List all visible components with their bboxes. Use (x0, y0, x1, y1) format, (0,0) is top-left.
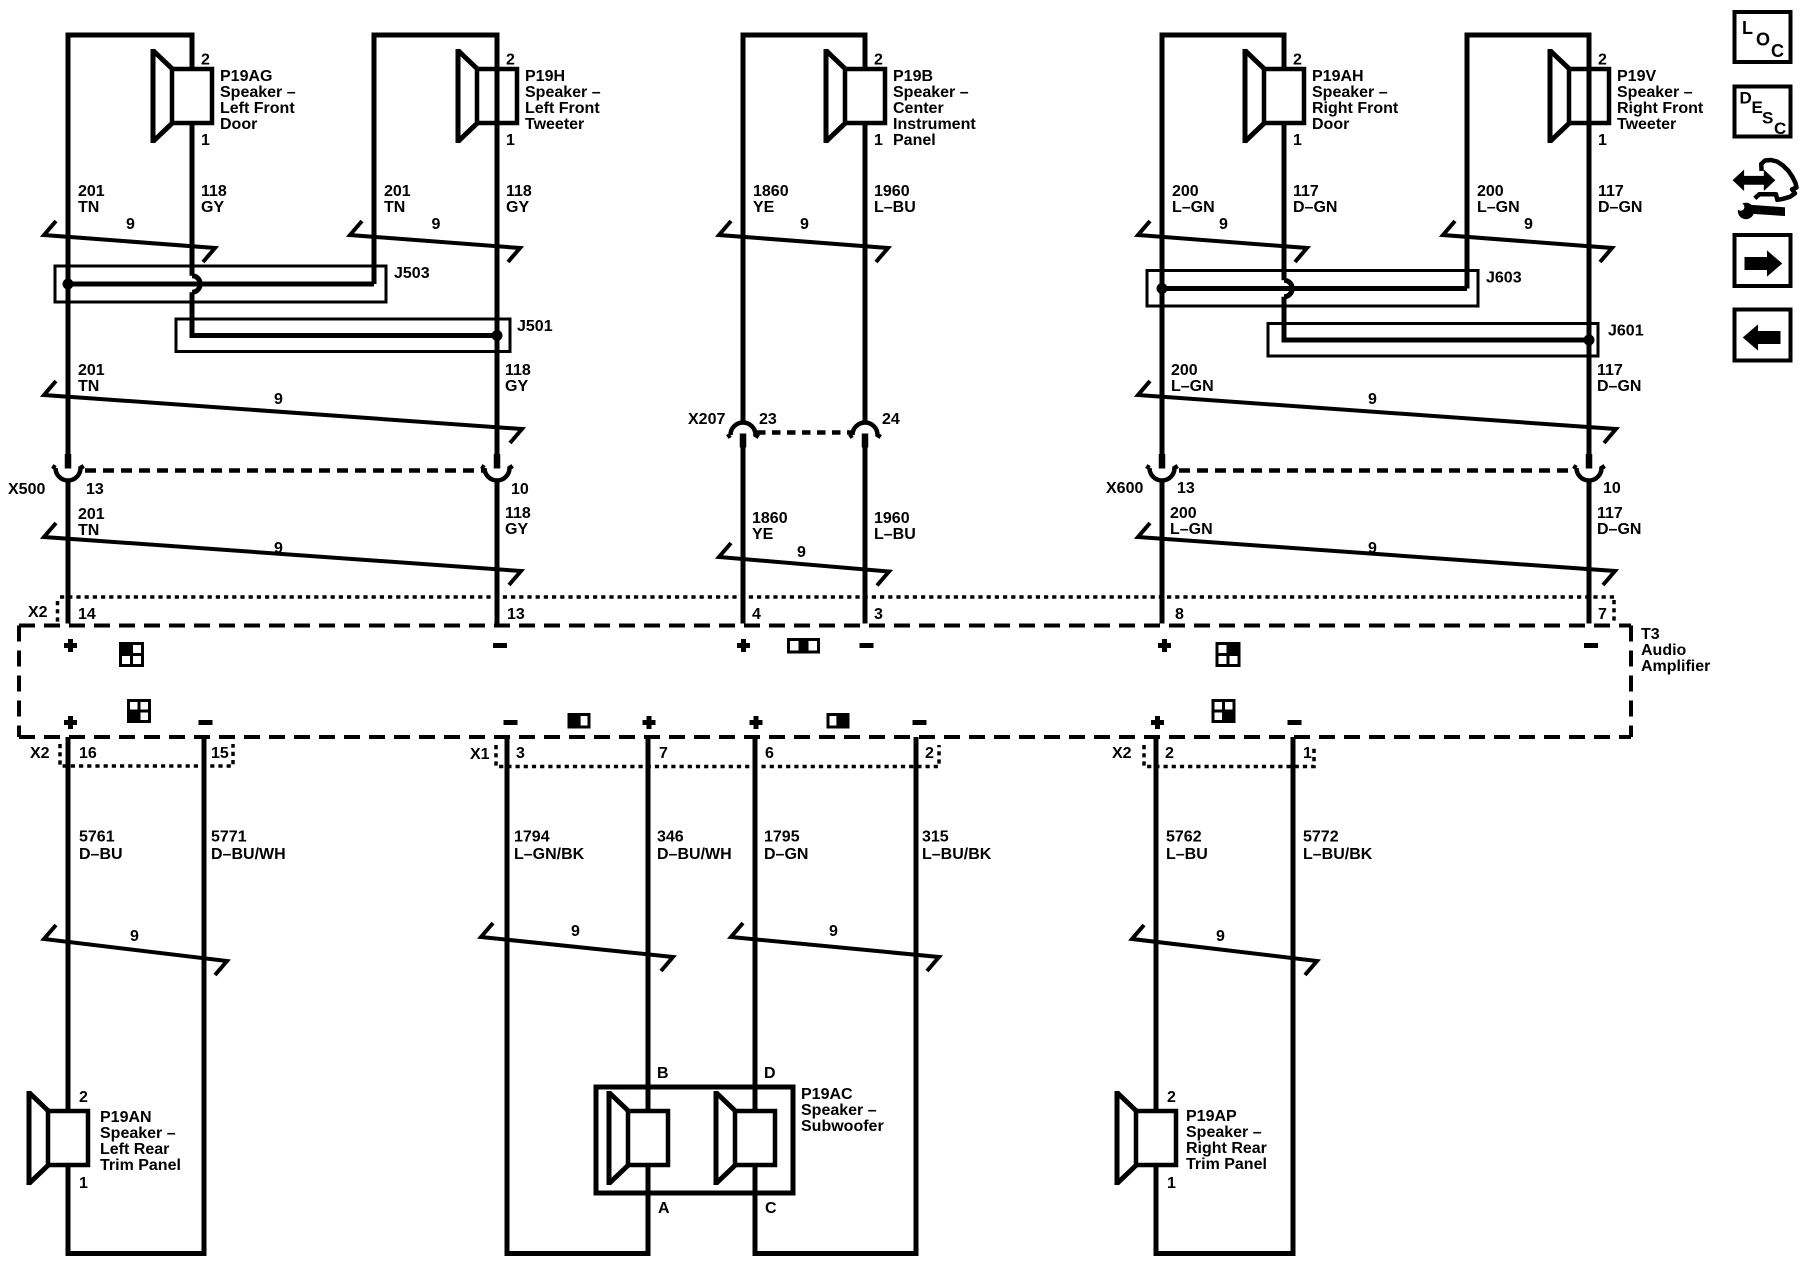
subwoofer box P19AC (596, 1087, 793, 1193)
svg-text:2: 2 (79, 1089, 88, 1106)
svg-text:O: O (1756, 30, 1770, 50)
amp plus pin4 (737, 639, 750, 652)
splice J503 (55, 266, 386, 302)
svg-text:X2: X2 (1112, 745, 1132, 762)
junction dot J503 on 201 TN (63, 279, 74, 290)
speaker P19AG symbol wire (190, 33, 195, 71)
icon subwoofer left position (569, 715, 589, 728)
svg-text:9: 9 (126, 216, 135, 233)
svg-text:118GY: 118GY (505, 505, 531, 538)
wire below speaker P19AH (1282, 122, 1287, 160)
svg-text:7: 7 (1598, 606, 1607, 623)
connector X2 left jog (56, 601, 60, 622)
svg-text:2: 2 (1167, 1089, 1176, 1106)
amp plus pin7 X1 (643, 716, 656, 729)
svg-text:2: 2 (1598, 52, 1607, 69)
speaker P19B symbol wire (863, 33, 868, 71)
harness crossing 9 bottom left (44, 925, 227, 975)
harness crossing 9 bottom mid1 (481, 923, 673, 971)
icon center speaker position (789, 640, 819, 653)
wire 201 TN X500 to amp pin14 (66, 481, 71, 624)
amp minus pin3 X1 (504, 720, 518, 725)
connector X207 terminal 23 (727, 423, 758, 448)
speaker P19AH symbol wire (1282, 33, 1287, 71)
svg-text:D: D (764, 1065, 776, 1082)
harness crossing 9 row3 left (44, 523, 521, 585)
svg-text:X2: X2 (30, 745, 50, 762)
wire 1960 L-BU P19B pin1 to X207 pin24 (863, 122, 868, 421)
splice J603 (1147, 271, 1478, 307)
legend forward arrow (1745, 252, 1782, 276)
legend DESC letters (1740, 89, 1787, 139)
speaker P19V (1550, 49, 1609, 143)
harness crossing 9 bottom right (1132, 925, 1317, 975)
svg-text:X500: X500 (8, 481, 45, 498)
svg-text:4: 4 (752, 606, 761, 623)
svg-text:13: 13 (86, 481, 104, 498)
wire 117 D-GN X600 to amp pin7 (1587, 481, 1592, 624)
harness crossing 9 at P19AH (1138, 221, 1307, 262)
wire hop 117 D-GN over J603 splice wire (1284, 280, 1292, 296)
svg-text:8: 8 (1175, 606, 1184, 623)
speaker P19AC coil2 (716, 1091, 775, 1185)
svg-text:C: C (765, 1200, 777, 1217)
connector X207 terminal 24 (849, 423, 880, 448)
wire 1860 YE X207 to amp pin4 (741, 446, 746, 624)
svg-text:X600: X600 (1106, 480, 1143, 497)
speaker P19V symbol wire (1587, 33, 1592, 71)
svg-text:1: 1 (201, 132, 210, 149)
splice wire 200 L-GN inside J603 (1162, 286, 1467, 291)
svg-text:118GY: 118GY (506, 183, 532, 216)
svg-text:1: 1 (874, 132, 883, 149)
legend back arrow box (1735, 310, 1791, 361)
svg-text:9: 9 (1368, 540, 1377, 557)
svg-text:1: 1 (1303, 745, 1312, 762)
svg-text:15: 15 (211, 745, 229, 762)
svg-text:2: 2 (925, 745, 934, 762)
harness crossing 9 at P19H (350, 221, 520, 262)
svg-text:9: 9 (432, 216, 441, 233)
svg-text:118GY: 118GY (201, 183, 227, 216)
wire 5761 D-BU amp pin16 to P19AN pin2 (66, 737, 71, 1112)
svg-text:10: 10 (511, 481, 529, 498)
amp minus pin3 (860, 643, 874, 648)
svg-text:10: 10 (1603, 480, 1621, 497)
speaker P19AP (1117, 1091, 1176, 1185)
svg-text:9: 9 (130, 928, 139, 945)
wire 5771 D-BU/WH amp pin15 down (202, 737, 207, 1256)
wire hop 118 GY over J503 splice wire (192, 276, 200, 292)
svg-text:C: C (1771, 41, 1784, 61)
amplifier T3 box bottom edge (19, 735, 1631, 739)
amp plus pin16 (64, 716, 77, 729)
wire 118 GY X500 to amp pin13 (495, 481, 500, 624)
harness crossing 9 bottom mid2 (731, 923, 939, 971)
svg-text:1: 1 (1293, 132, 1302, 149)
amp minus pin15 (199, 720, 213, 725)
junction dot J601 on 117 D-GN (1584, 335, 1595, 346)
legend LOC letters (1742, 18, 1784, 61)
svg-text:J601: J601 (1608, 323, 1644, 340)
svg-text:7: 7 (659, 745, 668, 762)
svg-text:1: 1 (506, 132, 515, 149)
wire 1860 YE P19B pin2 to X207 pin23 (741, 33, 746, 422)
svg-text:9: 9 (829, 923, 838, 940)
wire subwoofer A down (646, 1164, 651, 1256)
svg-text:X1: X1 (470, 746, 490, 763)
svg-text:2: 2 (1293, 52, 1302, 69)
speaker P19H (458, 49, 517, 143)
svg-text:9: 9 (1216, 928, 1225, 945)
icon right front speaker position (1217, 644, 1239, 666)
harness crossing 9 at P19V (1443, 221, 1612, 262)
svg-text:14: 14 (78, 606, 96, 623)
connector X2 right jog (1612, 600, 1616, 622)
amplifier T3 box right edge (1629, 626, 1633, 738)
connector X207 dashed line (757, 430, 851, 435)
harness crossing 9 row2 left (44, 381, 522, 443)
svg-text:9: 9 (1524, 216, 1533, 233)
amp minus pin13 (493, 643, 507, 648)
svg-text:D: D (1740, 89, 1752, 108)
harness crossing 9 at P19B (719, 221, 888, 262)
wire P19AN pin1 down (66, 1164, 71, 1256)
svg-text:16: 16 (79, 745, 97, 762)
svg-text:2: 2 (506, 52, 515, 69)
wire subwoofer C down (753, 1164, 758, 1256)
legend LOC box (1735, 12, 1791, 62)
legend back arrow (1744, 326, 1781, 350)
speaker P19H symbol wire (495, 33, 500, 71)
amp minus pin1 X2 (1288, 720, 1302, 725)
wire 200 L-GN X600 to amp pin8 (1160, 481, 1165, 624)
connector X2 bottom-right dotted line (1144, 745, 1314, 767)
legend harness outline (1755, 160, 1797, 200)
wire 117 D-GN P19AH pin1 to splice J601 (1282, 122, 1287, 280)
amp plus pin2 X2 (1151, 716, 1164, 729)
svg-text:J501: J501 (517, 318, 553, 335)
speaker P19AG (153, 49, 212, 143)
legend DESC box (1735, 87, 1791, 137)
svg-text:S: S (1762, 109, 1773, 128)
junction dot J603 on 200 L-GN (1157, 283, 1168, 294)
svg-text:9: 9 (274, 540, 283, 557)
wire below speaker P19V (1587, 122, 1592, 160)
amp plus pin14 (64, 639, 77, 652)
speaker P19B (826, 49, 885, 143)
wire bottom U P19AP (1154, 1251, 1296, 1256)
connector X2 bottom-left dotted line (60, 744, 233, 766)
svg-text:3: 3 (516, 745, 525, 762)
wire 117 D-GN P19V pin1 to X600 pin10 (1587, 33, 1592, 457)
connector X500 terminal 10 (481, 454, 512, 480)
splice wire 201 TN inside J503 (68, 282, 374, 287)
wire bottom U P19AN (66, 1251, 207, 1256)
svg-text:9: 9 (571, 923, 580, 940)
splice J501 (176, 319, 510, 352)
speaker P19AC coil1 (609, 1091, 668, 1185)
icon subwoofer right position (828, 715, 848, 728)
svg-text:J503: J503 (394, 265, 430, 282)
connector X600 terminal 13 (1146, 454, 1177, 480)
wire 201 TN P19H pin2 to splice J503 (372, 33, 377, 285)
svg-text:3: 3 (874, 606, 883, 623)
harness crossing 9 row3 center (719, 543, 889, 586)
svg-text:B: B (657, 1065, 669, 1082)
wire bottom U subwoofer A (505, 1251, 651, 1256)
amplifier T3 box top edge (19, 624, 1631, 628)
svg-text:1: 1 (79, 1175, 88, 1192)
svg-text:L: L (1742, 18, 1753, 38)
speaker P19AH (1245, 49, 1304, 143)
connector X500 terminal 13 (52, 454, 83, 480)
svg-text:9: 9 (274, 391, 283, 408)
icon left rear speaker position (129, 701, 150, 722)
svg-text:A: A (658, 1200, 670, 1217)
wire 117 D-GN elbow into J601 (1284, 297, 1589, 340)
svg-text:1: 1 (1598, 132, 1607, 149)
wire top bar P19V (1465, 33, 1592, 38)
svg-text:5762L–BU: 5762L–BU (1166, 829, 1208, 864)
svg-text:9: 9 (797, 544, 806, 561)
amplifier T3 box left edge (17, 626, 21, 738)
speaker P19AN (29, 1091, 88, 1185)
svg-text:X2: X2 (28, 604, 48, 621)
svg-text:2: 2 (874, 52, 883, 69)
splice J601 (1268, 324, 1598, 357)
wire 118 GY P19H pin1 to X500 pin10 (495, 33, 500, 457)
svg-text:C: C (1774, 119, 1786, 138)
svg-text:J603: J603 (1486, 270, 1522, 287)
wire top bar P19AG (66, 33, 195, 38)
connector X1 dotted line (496, 745, 939, 767)
amp plus pin8 (1158, 639, 1171, 652)
legend two-way arrow (1733, 171, 1774, 190)
svg-text:9: 9 (1219, 216, 1228, 233)
wire below speaker P19B (863, 122, 868, 160)
wire 118 GY P19AG pin1 to splice J501 (190, 122, 195, 276)
wire bottom U subwoofer C (753, 1251, 919, 1256)
wire 200 L-GN P19AH pin2 to X600 pin13 (1160, 33, 1165, 457)
svg-text:X207: X207 (688, 411, 725, 428)
connector X600 terminal 10 (1573, 454, 1604, 480)
legend wrench (1737, 203, 1785, 219)
svg-text:23: 23 (759, 411, 777, 428)
wire 5762 L-BU amp pin2 to P19AP pin2 (1154, 737, 1159, 1112)
wire 1794 L-GN/BK amp pin3 down (505, 737, 510, 1256)
svg-text:24: 24 (882, 411, 900, 428)
wire P19AP pin1 down (1154, 1164, 1159, 1256)
harness crossing 9 at P19AG (44, 221, 215, 262)
icon left front speaker position (121, 644, 143, 666)
harness crossing 9 row2 right (1138, 381, 1616, 443)
svg-text:6: 6 (765, 745, 774, 762)
wire 315 L-BU/BK amp pin2 down (914, 737, 919, 1256)
harness crossing 9 row3 right (1138, 523, 1615, 585)
svg-text:2: 2 (201, 52, 210, 69)
wire 1960 L-BU X207 to amp pin3 (863, 446, 868, 624)
svg-text:118GY: 118GY (505, 362, 531, 395)
amp minus pin7 (1584, 643, 1598, 648)
wire 1795 D-GN amp pin6 to subwoofer D (753, 737, 758, 1112)
wire 200 L-GN P19V pin2 to splice J603 (1465, 33, 1470, 289)
svg-text:9: 9 (1368, 391, 1377, 408)
junction dot J501 on 118 GY (492, 330, 503, 341)
wire below speaker P19AG (190, 122, 195, 160)
wire top bar P19AH (1160, 33, 1287, 38)
svg-text:9: 9 (800, 216, 809, 233)
svg-text:13: 13 (507, 606, 525, 623)
svg-text:1: 1 (1167, 1175, 1176, 1192)
svg-text:2: 2 (1165, 745, 1174, 762)
wire top bar P19H (372, 33, 500, 38)
wire 118 GY elbow into J501 (192, 292, 497, 335)
connector X500 dashed line (85, 468, 483, 473)
amp minus pin2 X1 (913, 720, 927, 725)
wire below speaker P19H (495, 122, 500, 160)
icon right rear speaker position (1213, 701, 1234, 722)
wire 201 TN P19AG pin2 to X500 pin13 (66, 33, 71, 457)
svg-text:1960L–BU: 1960L–BU (874, 183, 916, 216)
amp plus pin6 X1 (750, 716, 763, 729)
connector X600 dashed line (1179, 468, 1577, 473)
svg-text:13: 13 (1177, 480, 1195, 497)
svg-text:1960L–BU: 1960L–BU (874, 510, 916, 543)
connector X2 dashed line top (60, 595, 1614, 599)
wire 5772 L-BU/BK amp pin1 down (1291, 737, 1296, 1256)
wire 346 D-BU/WH amp pin7 to subwoofer B (646, 737, 651, 1112)
wire top bar P19B (741, 33, 868, 38)
legend forward arrow box (1735, 235, 1791, 286)
